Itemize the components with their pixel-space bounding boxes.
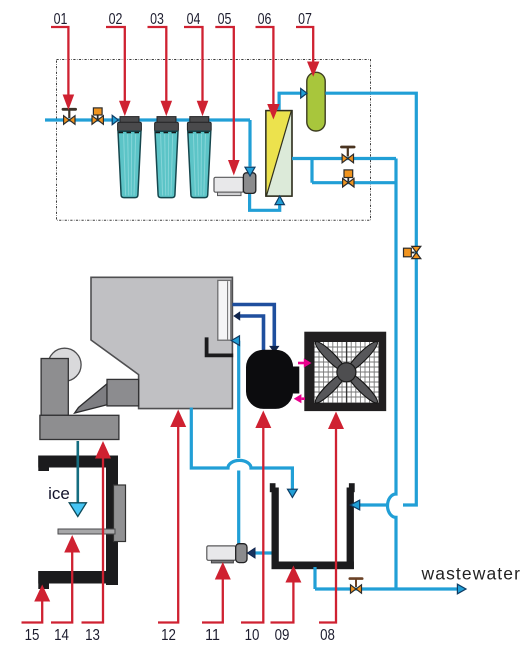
callout 02 leader <box>106 27 125 103</box>
wire: compressor to evaporator return <box>240 316 264 353</box>
svg-text:ice: ice <box>48 484 70 503</box>
svg-text:06: 06 <box>258 11 272 28</box>
arrowhead 08 <box>328 412 344 430</box>
svg-text:03: 03 <box>150 11 164 28</box>
flow cone into capsule 07 <box>301 88 307 98</box>
svg-text:14: 14 <box>54 627 69 644</box>
svg-text:08: 08 <box>320 627 335 644</box>
PIPES (light blue) <box>45 93 458 589</box>
wire: pump 05 outlet to RO bottom <box>250 192 280 210</box>
callout 07 leader <box>296 27 313 64</box>
RO membrane 06 <box>266 111 292 197</box>
booster pump 05 <box>214 173 256 196</box>
callout 04 leader <box>184 27 203 103</box>
callout 01 leader <box>51 27 68 97</box>
flow cone into pump 05 <box>245 167 255 176</box>
dispenser outlet block <box>107 379 139 406</box>
arrowhead 04 <box>197 101 209 117</box>
suction arrowhead into compressor <box>269 346 279 353</box>
svg-text:05: 05 <box>218 11 232 28</box>
wire: bypass upper with valve <box>292 157 396 160</box>
ice chute wedge <box>75 384 107 413</box>
water trough <box>270 483 355 569</box>
arrowhead 09 <box>285 566 301 583</box>
post carbon capsule 07 <box>307 72 325 131</box>
suction arrow into pump 11 <box>248 548 256 558</box>
svg-text:11: 11 <box>205 627 220 644</box>
callout 13 leader <box>82 457 104 623</box>
inlet ball valve 01 <box>63 109 76 124</box>
svg-text:09: 09 <box>275 627 290 644</box>
callout 06 leader <box>256 27 274 106</box>
fan hub <box>337 363 356 382</box>
dispenser vertical arm <box>41 359 68 416</box>
liquid return arrow to compressor <box>294 394 305 403</box>
svg-text:04: 04 <box>187 11 201 28</box>
dispenser base bar <box>40 415 119 439</box>
callout 14 leader <box>51 551 72 623</box>
machine body (ice maker 12) <box>91 277 232 408</box>
bin shelf <box>58 529 115 534</box>
red callout lines and arrows <box>22 27 337 623</box>
flow cone into trough (machine drain) <box>288 489 298 497</box>
wire: machine drain with crossing bump <box>191 408 292 490</box>
water pump 11 <box>207 544 247 563</box>
label texts <box>25 11 335 644</box>
svg-text:01: 01 <box>54 11 68 28</box>
svg-text:10: 10 <box>245 627 260 644</box>
wire: drop to pump 05 <box>248 120 251 167</box>
arrowhead 10 <box>255 411 271 429</box>
callout 11 leader <box>202 578 223 623</box>
filter cartridge 02 <box>118 117 142 198</box>
condenser 08 <box>304 332 386 411</box>
wire: evaporator to compressor suction <box>232 305 274 347</box>
arrowhead 07 <box>307 62 319 77</box>
svg-text:wastewater: wastewater <box>421 564 522 584</box>
evaporator slot <box>218 280 231 340</box>
refrigerant pipes (dark blue) <box>232 305 274 353</box>
inlet solenoid valve <box>92 108 103 124</box>
svg-text:02: 02 <box>109 11 123 28</box>
check valve cone on main pipe <box>112 115 118 124</box>
arrowhead 05 <box>228 160 240 176</box>
callout 03 leader <box>148 27 167 103</box>
dispenser wheel <box>48 348 81 381</box>
filter cartridge 04 <box>187 117 211 198</box>
svg-text:07: 07 <box>298 11 312 28</box>
water distributor L bracket <box>205 337 234 357</box>
feed water main pipe <box>45 118 250 121</box>
arrowhead 12 <box>170 410 186 428</box>
wastewater outlet arrow <box>457 584 466 594</box>
bin level sensor tab <box>114 485 126 542</box>
callout 08 leader <box>319 427 336 623</box>
svg-text:15: 15 <box>25 627 40 644</box>
flow cone into RO bottom <box>275 196 284 205</box>
callout 10 leader <box>241 426 263 623</box>
wastewater ball valve <box>350 579 362 594</box>
flush ball valve (upper bypass) <box>342 147 355 163</box>
wire: RO top to capsule 07 <box>279 93 301 110</box>
compressor 10 <box>246 350 293 409</box>
svg-text:12: 12 <box>161 627 176 644</box>
svg-text:13: 13 <box>85 627 100 644</box>
callout 05 leader <box>215 27 234 162</box>
arrowhead 06 <box>267 104 279 120</box>
ice drop arrow <box>69 441 86 517</box>
wire: trough drain to wastewater <box>315 567 458 589</box>
arrowhead 03 <box>161 101 173 117</box>
trough feed solenoid valve <box>404 246 421 258</box>
arrowhead 01 <box>63 95 75 111</box>
arrowhead 11 <box>215 562 231 580</box>
pretreatment dotted enclosure <box>57 60 371 221</box>
arrowhead 13 <box>95 441 111 459</box>
return arrowhead into evaporator <box>233 311 240 321</box>
arrowhead 14 <box>64 535 80 553</box>
flow cone into trough right wall <box>350 500 359 510</box>
callout 12 leader <box>158 425 178 623</box>
condenser fan blades <box>313 339 381 406</box>
hot gas arrow to condenser <box>298 358 312 367</box>
ice storage bin <box>38 456 118 590</box>
wire: trough to pump 11 <box>255 551 272 554</box>
flush solenoid valve (lower bypass) <box>343 170 354 187</box>
callout 09 leader <box>271 581 294 623</box>
wire: capsule 07 outlet down right side <box>325 93 416 505</box>
wire: bypass right drop with crossing bump <box>387 159 396 590</box>
wire: pump 11 discharge riser <box>237 341 240 545</box>
arrowhead 02 <box>119 101 131 117</box>
callout 15 leader <box>22 600 43 623</box>
water arrow into evaporator <box>231 336 239 346</box>
arrowhead 15 <box>34 585 50 602</box>
filter cartridge 03 <box>155 117 179 198</box>
wire: bypass lower with valve <box>312 159 396 183</box>
